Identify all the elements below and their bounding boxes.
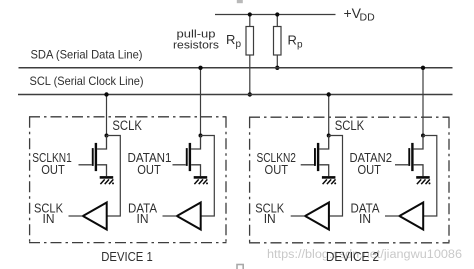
junction dot on SCL (device2 SCLK): [327, 92, 331, 96]
wire buffer output (device1 SCLK): [69, 215, 83, 217]
svg-text:OUT: OUT: [265, 162, 289, 177]
watermark square (bottom): [237, 265, 243, 269]
buffer U2 (DATA IN, device 1): [177, 203, 201, 230]
junction dot on SCL (left Rp): [248, 92, 252, 96]
label SCLK IN (device 2): [255, 201, 284, 226]
transistor Q1 (SCLKN1, device 1): [79, 136, 107, 177]
svg-text:resistors: resistors: [173, 40, 220, 52]
label Rp (left): [226, 32, 242, 50]
label DATA IN (device 2): [351, 201, 380, 226]
buffer U3 (SCLK IN, device 2): [305, 203, 329, 230]
junction dot on SDA (device1 DATA): [198, 66, 202, 70]
label DATAN1 OUT: [128, 150, 172, 177]
wire feedback loop to buffer (device2 SCLK): [329, 136, 343, 217]
svg-text:SCL (Serial Clock Line): SCL (Serial Clock Line): [30, 74, 144, 88]
node dot device2 SCLK internal: [327, 134, 331, 138]
junction dot on SDA (right Rp): [275, 66, 279, 70]
svg-text:pull-up: pull-up: [177, 28, 216, 40]
wire buffer output (device2 DATA): [385, 215, 399, 217]
wire VDD to resistor Rp (right): [276, 15, 278, 27]
wire buffer output (device2 SCLK): [291, 215, 305, 217]
ground (device2 DATA): [416, 177, 430, 184]
svg-text:OUT: OUT: [357, 162, 381, 177]
wire left Rp to SCL (crosses SDA): [249, 55, 251, 95]
svg-text:OUT: OUT: [41, 162, 65, 177]
transistor Q4 (DATAN2, device 2): [395, 136, 423, 177]
DEVICE 1 box (dash-dot): [29, 117, 227, 243]
label Rp (right): [288, 33, 304, 51]
wire VDD to resistor Rp (left): [249, 15, 251, 27]
svg-text:SDA (Serial Data Line): SDA (Serial Data Line): [31, 48, 143, 62]
svg-text:DD: DD: [360, 11, 376, 23]
watermark square (top): [237, 0, 243, 3]
wire feedback loop to buffer (device1 SCLK): [107, 136, 121, 217]
ground (device2 SCLK): [322, 177, 336, 184]
svg-text:R: R: [226, 32, 235, 47]
junction dot on SDA (device2 DATA): [421, 66, 425, 70]
label +VDD: [344, 5, 376, 23]
label pull-up resistors: [173, 28, 220, 51]
ground (device1 SCLK): [100, 177, 114, 184]
svg-text:OUT: OUT: [137, 162, 161, 177]
junction dot on VDD rail (left Rp): [248, 12, 252, 16]
wire right Rp to SDA: [276, 55, 278, 68]
svg-text:p: p: [297, 40, 303, 51]
svg-text:p: p: [236, 39, 242, 50]
wire SDA to Q4 drain node (crosses SCL): [422, 68, 424, 136]
junction dot on VDD rail (right Rp): [275, 12, 279, 16]
svg-text:IN: IN: [43, 211, 55, 226]
node +VDD rail: [215, 14, 336, 16]
wire buffer output (device1 DATA): [163, 215, 177, 217]
wire SDA to Q2 drain node (crosses SCL): [200, 68, 202, 136]
svg-text:SCLK: SCLK: [112, 118, 141, 133]
svg-text:IN: IN: [264, 211, 276, 226]
svg-text:DEVICE 1: DEVICE 1: [101, 249, 153, 264]
resistor Rp (left): [246, 27, 254, 56]
svg-text:IN: IN: [359, 211, 371, 226]
label DATAN2 OUT: [349, 150, 392, 177]
wire SDA bus line: [19, 67, 453, 69]
node dot device1 SCLK internal: [105, 134, 109, 138]
wire feedback loop to buffer (device2 DATA): [423, 136, 437, 217]
svg-text:DEVICE 2: DEVICE 2: [326, 249, 379, 264]
svg-text:SCLK: SCLK: [335, 118, 365, 133]
ground (device1 DATA): [194, 177, 208, 184]
wire feedback loop to buffer (device1 DATA): [201, 136, 215, 217]
label SCLKN1 OUT: [32, 150, 72, 177]
transistor Q2 (DATAN1, device 1): [173, 136, 201, 177]
junction dot on SCL (device1 SCLK): [104, 92, 108, 96]
wire SCL to Q1 drain node: [106, 95, 108, 136]
label DATA IN: [128, 201, 157, 226]
label SCLK IN: [34, 201, 63, 226]
resistor Rp (right): [274, 27, 282, 56]
DEVICE 2 box (dash-dot): [249, 117, 450, 243]
wire SCL bus line: [18, 94, 453, 96]
buffer U4 (DATA IN, device 2): [399, 203, 423, 230]
label SCLKN2 OUT: [256, 150, 296, 177]
buffer U1 (SCLK IN, device 1): [83, 203, 107, 230]
node dot device2 DATA internal: [421, 134, 425, 138]
svg-text:IN: IN: [137, 211, 149, 226]
svg-text:R: R: [288, 33, 297, 48]
node dot device1 DATA internal: [199, 134, 203, 138]
wire SCL to Q3 drain node: [328, 95, 330, 136]
transistor Q3 (SCLKN2, device 2): [301, 136, 329, 177]
